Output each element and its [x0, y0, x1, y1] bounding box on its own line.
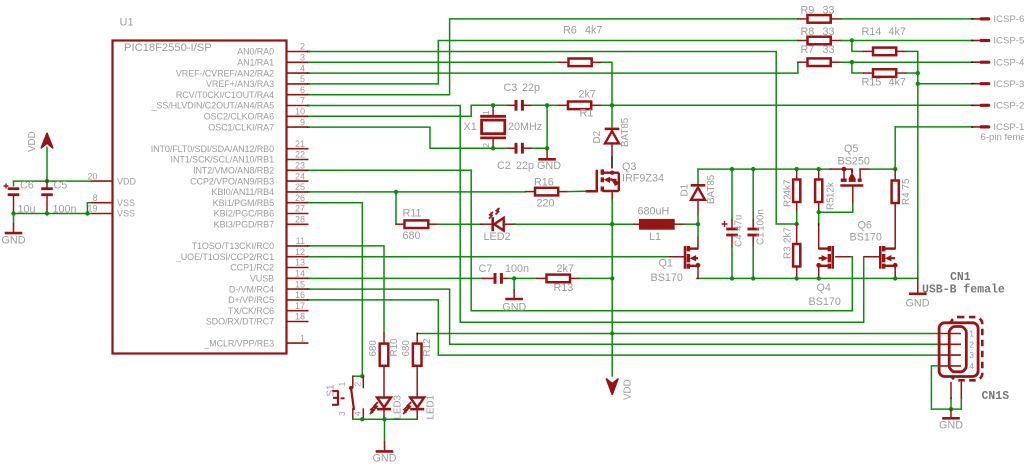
wire VDD rail to pin 20	[14, 181, 91, 186]
wire pin16 D+ to USB pin3	[309, 300, 940, 355]
svg-text:2: 2	[969, 339, 974, 349]
transistor Q6 BS170	[879, 246, 882, 269]
svg-text:3: 3	[300, 53, 305, 63]
node ICSP-6	[972, 18, 981, 20]
IC U1 PIC18F2550-I/SP body	[113, 41, 287, 354]
svg-text:LED3: LED3	[393, 394, 404, 419]
svg-text:VDD: VDD	[27, 131, 38, 152]
wire Q4 gate to pin23 net	[836, 256, 851, 258]
resistor R14 4k7	[850, 38, 854, 42]
pin 16 D+/VP/RC5	[287, 299, 309, 301]
svg-text:L1: L1	[649, 231, 661, 243]
svg-text:ICSP-2: ICSP-2	[993, 101, 1024, 112]
USB connector body	[939, 323, 978, 377]
svg-text:GND: GND	[502, 302, 526, 314]
svg-text:D1: D1	[680, 184, 691, 197]
svg-text:LED1: LED1	[426, 395, 437, 420]
svg-text:21: 21	[295, 139, 305, 149]
wire VDD to rail	[46, 148, 48, 182]
pin 28 KBI3/PGD/RB7	[287, 223, 309, 225]
svg-text:27: 27	[295, 204, 305, 214]
svg-text:8: 8	[92, 193, 97, 203]
ground GND (USB)	[950, 409, 952, 418]
capacitor C3 22p	[493, 104, 507, 106]
svg-text:VDD: VDD	[623, 379, 634, 400]
svg-text:680: 680	[403, 230, 421, 242]
svg-text:4: 4	[353, 411, 363, 416]
crystal X1 20MHz	[480, 115, 506, 118]
svg-text:R13: R13	[554, 282, 574, 294]
wire +V rail	[698, 168, 831, 170]
svg-text:GND: GND	[906, 298, 930, 310]
pin 1 _MCLR/VPP/RE3	[287, 342, 309, 344]
svg-text:9: 9	[300, 117, 305, 127]
USB shield dashed outline	[951, 317, 982, 380]
pin 11 T1OSO/T13CKI/RC0	[287, 245, 309, 247]
svg-text:6: 6	[300, 85, 305, 95]
transistor Q3 IRF9Z34	[586, 170, 597, 192]
svg-text:2: 2	[300, 42, 305, 52]
svg-text:R6: R6	[563, 25, 577, 37]
wire pin2 AN0/RA0 net to R2/R3 junction	[309, 52, 797, 225]
wire pin7 RA5 down to Q6 gate	[309, 106, 864, 323]
svg-text:4: 4	[300, 63, 305, 73]
wire Q3 drain to VDD node	[611, 201, 613, 225]
ground GND (LEDs)	[384, 442, 386, 451]
svg-text:C7: C7	[479, 263, 493, 275]
svg-text:12: 12	[295, 247, 305, 257]
svg-text:C3: C3	[504, 82, 518, 94]
svg-text:VUSB: VUSB	[250, 274, 274, 284]
svg-text:_UOE/T1OSI/CCP2/RC1: _UOE/T1OSI/CCP2/RC1	[175, 252, 274, 262]
transistor Q1 BS170	[684, 246, 687, 269]
svg-text:GND: GND	[537, 160, 561, 172]
pin 23 INT2/VMO/AN8/RB2	[287, 169, 309, 171]
svg-text:KBI3/PGD/RB7: KBI3/PGD/RB7	[214, 220, 274, 230]
svg-text:75: 75	[901, 178, 912, 189]
resistor R11 680	[396, 223, 405, 225]
svg-text:C4: C4	[734, 234, 745, 247]
svg-text:Q5: Q5	[844, 143, 858, 155]
capacitor C5 100n	[46, 181, 48, 189]
svg-text:33: 33	[823, 5, 835, 17]
svg-text:R16: R16	[534, 177, 554, 189]
svg-text:24: 24	[295, 171, 305, 181]
svg-text:SDO/RX/DT/RC7: SDO/RX/DT/RC7	[206, 317, 274, 327]
wire pin25 KBI0 to R16	[309, 191, 526, 193]
svg-text:INT1/SCK/SCL/AN10/RB1: INT1/SCK/SCL/AN10/RB1	[171, 155, 275, 165]
svg-text:KBI2/PGC/RB6: KBI2/PGC/RB6	[214, 209, 274, 219]
transistor Q5 BS250	[830, 168, 852, 170]
svg-text:BS170: BS170	[809, 296, 841, 308]
svg-text:4k7: 4k7	[783, 180, 794, 196]
wire pin14 VUSB to C7	[309, 277, 483, 279]
svg-text:18: 18	[295, 312, 305, 322]
svg-text:TX/CK/RC6: TX/CK/RC6	[228, 306, 274, 316]
svg-text:4k7: 4k7	[585, 25, 602, 37]
pin 5 VREF+/AN3/RA3	[287, 83, 309, 85]
wire R5 node down to Q4 drain	[818, 212, 820, 224]
svg-text:R9: R9	[801, 5, 815, 17]
svg-text:Q6: Q6	[858, 220, 872, 232]
svg-text:11: 11	[296, 236, 305, 246]
wire pin11 T1OSO to R10	[309, 246, 385, 333]
svg-text:D+/VP/RC5: D+/VP/RC5	[228, 295, 274, 305]
pin 26 KBI1/PGM/RB5	[287, 202, 309, 204]
wire pin26 KBI1 to S1	[309, 203, 363, 377]
ground GND (crystal)	[546, 148, 548, 150]
svg-text:IRF9Z34: IRF9Z34	[622, 173, 664, 185]
svg-text:OSC1/CLKI/RA7: OSC1/CLKI/RA7	[208, 122, 274, 132]
power VDD symbol (left)	[41, 133, 52, 148]
pin 10 OSC2/CLKO/RA6	[287, 115, 309, 117]
ground GND (bus right)	[917, 278, 919, 293]
wire KBI0 branch down to R11	[395, 192, 397, 224]
svg-text:2k7: 2k7	[557, 263, 574, 275]
pin 8 VSS	[91, 202, 113, 204]
wire GND bus to VSS pins	[14, 213, 91, 215]
resistor R13 2k7	[514, 277, 537, 279]
svg-text:4k7: 4k7	[889, 26, 906, 38]
svg-text:INT2/VMO/AN8/RB2: INT2/VMO/AN8/RB2	[193, 166, 274, 176]
resistor R3 2k7	[796, 224, 798, 244]
pin 6 RCV/T0CKI/C1OUT/RA4	[287, 94, 309, 96]
svg-text:BS170: BS170	[651, 272, 683, 284]
pin 22 INT1/SCK/SCL/AN10/RB1	[287, 159, 309, 161]
svg-text:U1: U1	[120, 17, 134, 29]
svg-text:LED2: LED2	[484, 231, 511, 243]
pin 21 INT0/FLT0/SDI/SDA/AN12/RB0	[287, 148, 309, 150]
svg-text:47u: 47u	[734, 215, 745, 231]
pin 24 CCP2/VPO/AN9/RB3	[287, 180, 309, 182]
svg-text:2k7: 2k7	[783, 227, 794, 243]
svg-text:28: 28	[295, 215, 305, 225]
svg-text:13: 13	[295, 258, 305, 268]
wire USB pin4 to GND	[931, 366, 951, 409]
resistor R1 2k7	[547, 104, 558, 106]
svg-text:1: 1	[300, 333, 305, 343]
svg-text:BAT85: BAT85	[620, 117, 631, 147]
power VDD arrow (down)	[607, 379, 618, 394]
svg-text:R4: R4	[901, 192, 912, 205]
wire S1 to LED bus	[353, 418, 363, 420]
svg-text:12k: 12k	[826, 182, 837, 198]
pin 4 VREF-/CVREF/AN2/RA2	[287, 72, 309, 74]
node ICSP-1	[972, 126, 981, 128]
svg-text:CN1: CN1	[950, 271, 971, 284]
node ICSP-2	[972, 104, 981, 106]
svg-text:USB-B female: USB-B female	[922, 284, 1005, 297]
svg-text:R14: R14	[862, 26, 882, 38]
resistor R2 4k7	[796, 169, 798, 179]
wire pin10 OSC2 to crystal pin1	[309, 105, 494, 116]
svg-text:100n: 100n	[756, 209, 767, 231]
svg-text:T1OSO/T13CKI/RC0: T1OSO/T13CKI/RC0	[192, 241, 275, 251]
transistor Q4 BS170	[831, 246, 834, 269]
diode D2 BAT85	[611, 105, 613, 127]
svg-text:22p: 22p	[522, 82, 540, 94]
svg-text:23: 23	[295, 161, 305, 171]
resistor R8 33	[798, 40, 808, 42]
svg-text:2k7: 2k7	[579, 89, 596, 101]
svg-text:Q3: Q3	[622, 161, 636, 173]
diode D1 BAT85	[697, 169, 699, 184]
svg-text:20: 20	[87, 171, 97, 181]
svg-text:BS250: BS250	[838, 156, 870, 168]
inductor L1 680uH	[610, 222, 614, 226]
wire ICSP-2 long net	[612, 104, 972, 106]
pin 9 OSC1/CLKI/RA7	[287, 126, 309, 128]
svg-text:22p: 22p	[516, 160, 534, 172]
resistor R15 4k7	[850, 60, 854, 64]
resistor R9 33	[798, 18, 808, 20]
svg-text:ICSP-3: ICSP-3	[993, 79, 1024, 90]
capacitor C6 10u	[8, 187, 20, 190]
wire R14/R15 to GND column	[917, 73, 919, 278]
USB pin leads	[939, 333, 961, 335]
svg-text:25: 25	[295, 182, 305, 192]
pin 14 VUSB	[287, 277, 309, 279]
svg-text:2: 2	[353, 382, 363, 387]
svg-text:CN1S: CN1S	[982, 390, 1010, 403]
pin 18 SDO/RX/DT/RC7	[287, 321, 309, 323]
svg-text:ICSP-6: ICSP-6	[993, 14, 1024, 25]
wire shield pins to GND	[950, 398, 952, 409]
svg-text:AN0/RA0: AN0/RA0	[237, 47, 274, 57]
node ICSP-4	[972, 61, 981, 63]
wire R6 to R1/D2 junction	[602, 62, 612, 105]
wire pin3 AN1/RA1 to R6	[309, 61, 560, 63]
svg-text:ICSP-4: ICSP-4	[993, 57, 1024, 68]
svg-text:C1: C1	[756, 232, 767, 245]
svg-text:BS170: BS170	[850, 232, 882, 244]
svg-text:AN1/RA1: AN1/RA1	[237, 58, 274, 68]
svg-text:20MHz: 20MHz	[508, 121, 542, 133]
svg-text:15: 15	[295, 279, 305, 289]
wire Q5 drain to R4 node	[860, 168, 869, 170]
svg-text:3: 3	[337, 411, 347, 416]
svg-text:1: 1	[969, 329, 974, 339]
svg-text:3: 3	[969, 350, 974, 360]
svg-text:VSS: VSS	[117, 198, 135, 208]
svg-text:VSS: VSS	[117, 209, 135, 219]
pin 12 _UOE/T1OSI/CCP2/RC1	[287, 256, 309, 258]
wire VDD line to USB pin1	[417, 333, 939, 335]
svg-text:R8: R8	[801, 26, 815, 38]
pin 25 KBI0/AN11/RB4	[287, 191, 309, 193]
svg-text:33: 33	[823, 44, 835, 56]
switch S1	[360, 374, 364, 378]
svg-text:6-pin female: 6-pin female	[981, 132, 1024, 143]
svg-text:R10: R10	[389, 338, 400, 357]
wire ICSP-3	[918, 83, 972, 85]
svg-text:D2: D2	[592, 131, 603, 144]
pin 27 KBI2/PGC/RB6	[287, 213, 309, 215]
svg-text:D-/VM/RC4: D-/VM/RC4	[229, 284, 274, 294]
svg-text:14: 14	[295, 269, 305, 279]
svg-text:4: 4	[969, 361, 974, 371]
svg-text:26: 26	[295, 193, 305, 203]
resistor R4 75	[894, 169, 896, 180]
wire GND bus	[698, 277, 918, 279]
svg-text:OSC2/CLKO/RA6: OSC2/CLKO/RA6	[204, 112, 274, 122]
svg-text:Q1: Q1	[659, 258, 673, 270]
capacitor C1 100n	[752, 169, 754, 220]
svg-text:Q4: Q4	[817, 282, 831, 294]
svg-text:S1: S1	[326, 385, 337, 397]
resistor R7 33	[798, 61, 808, 63]
USB shield pins	[950, 383, 952, 399]
pin 19 VSS	[91, 213, 113, 215]
node ICSP-5	[972, 40, 981, 42]
capacitor C4 47u	[731, 169, 733, 220]
wire VDD column down	[611, 224, 613, 376]
wire VSS pin 8 jog	[87, 203, 91, 214]
svg-text:R3: R3	[783, 246, 794, 259]
svg-text:680: 680	[401, 340, 412, 357]
wire LED bus to GND	[384, 419, 386, 442]
wire pin9 OSC1 to crystal pin2	[309, 127, 494, 148]
pin 17 TX/CK/RC6	[287, 310, 309, 312]
resistor R10 680	[383, 333, 385, 344]
svg-text:X1: X1	[464, 121, 477, 133]
svg-text:CCP2/VPO/AN9/RB3: CCP2/VPO/AN9/RB3	[190, 176, 274, 186]
resistor R12 680	[416, 334, 418, 344]
LED LED2	[491, 217, 494, 231]
svg-text:16: 16	[295, 290, 305, 300]
svg-text:VREF-/CVREF/AN2/RA2: VREF-/CVREF/AN2/RA2	[176, 68, 274, 78]
svg-text:KBI0/AN11/RB4: KBI0/AN11/RB4	[211, 187, 274, 197]
ground GND (C7)	[513, 278, 515, 289]
svg-text:17: 17	[295, 301, 305, 311]
svg-text:GND: GND	[2, 234, 26, 246]
wire pin15 D- to USB pin2	[309, 289, 940, 344]
svg-text:C2: C2	[497, 160, 511, 172]
wire pin6 RA4 up to ICSP-6 row	[309, 19, 798, 95]
svg-text:1: 1	[482, 110, 491, 115]
svg-text:1: 1	[337, 382, 347, 387]
wire ICSP-1 to R4 top	[894, 127, 896, 169]
svg-text:VDD: VDD	[117, 176, 137, 186]
svg-text:CCP1/RC2: CCP1/RC2	[230, 263, 274, 273]
resistor R5 12k	[818, 169, 820, 179]
svg-text:7: 7	[300, 96, 305, 106]
svg-text:33: 33	[823, 26, 835, 38]
svg-text:PIC18F2550-I/SP: PIC18F2550-I/SP	[124, 42, 212, 54]
pin 3 AN1/RA1	[287, 61, 309, 63]
svg-text:_SS/HLVDIN/C2OUT/AN4/RA5: _SS/HLVDIN/C2OUT/AN4/RA5	[151, 101, 275, 111]
pin 2 AN0/RA0	[287, 51, 309, 53]
wire C3 to C2 junction	[546, 105, 548, 148]
wire Q5 gate to R5 node	[819, 205, 853, 213]
svg-text:R1: R1	[580, 108, 594, 120]
svg-text:R15: R15	[862, 77, 882, 89]
svg-text:4k7: 4k7	[889, 77, 906, 89]
capacitor C2 22p	[493, 147, 507, 149]
svg-text:ICSP-5: ICSP-5	[993, 36, 1024, 47]
wire pin23 INT2/VMO net to Q4 gate	[309, 170, 853, 310]
capacitor C7 100n	[483, 277, 496, 279]
svg-text:680uH: 680uH	[638, 206, 670, 218]
wire R11 to LED2	[439, 223, 482, 225]
svg-text:220: 220	[537, 198, 555, 210]
LED LED3	[377, 398, 391, 408]
LED LED1	[410, 398, 424, 408]
svg-text:100n: 100n	[505, 263, 529, 275]
svg-text:GND: GND	[939, 420, 963, 432]
wire pin4 VREF- to R7	[309, 62, 798, 73]
svg-text:RCV/T0CKI/C1OUT/RA4: RCV/T0CKI/C1OUT/RA4	[176, 90, 274, 100]
svg-text:VREF+/AN3/RA3: VREF+/AN3/RA3	[206, 79, 274, 89]
node ICSP-3	[972, 83, 981, 85]
wire ICSP-1	[895, 126, 972, 128]
resistor R16 220	[526, 191, 536, 193]
svg-text:R11: R11	[403, 208, 422, 220]
pin 13 CCP1/RC2	[287, 267, 309, 269]
svg-text:C6: C6	[20, 180, 34, 192]
svg-text:BAT85: BAT85	[706, 174, 717, 204]
svg-text:KBI1/PGM/RB5: KBI1/PGM/RB5	[213, 198, 274, 208]
ground GND (left)	[13, 214, 15, 224]
svg-text:GND: GND	[373, 453, 397, 465]
svg-text:680: 680	[368, 340, 379, 357]
svg-text:_MCLR/VPP/RE3: _MCLR/VPP/RE3	[203, 338, 274, 348]
resistor R6 4k7	[559, 61, 569, 63]
wire LED2 to VDD node	[515, 223, 613, 225]
svg-text:2: 2	[482, 143, 491, 148]
svg-text:10: 10	[295, 107, 305, 117]
svg-text:22: 22	[295, 150, 305, 160]
pin 15 D-/VM/RC4	[287, 288, 309, 290]
pin 20 VDD	[91, 180, 113, 182]
wire pin5 VREF+ up to ICSP-5 row	[309, 41, 798, 84]
svg-text:5: 5	[300, 74, 305, 84]
svg-text:INT0/FLT0/SDI/SDA/AN12/RB0: INT0/FLT0/SDI/SDA/AN12/RB0	[151, 144, 274, 154]
pin 7 _SS/HLVDIN/C2OUT/AN4/RA5	[287, 105, 309, 107]
USB inner contour	[949, 327, 966, 372]
svg-text:R7: R7	[801, 44, 815, 56]
svg-text:C5: C5	[54, 180, 68, 192]
svg-text:R12: R12	[422, 339, 433, 357]
